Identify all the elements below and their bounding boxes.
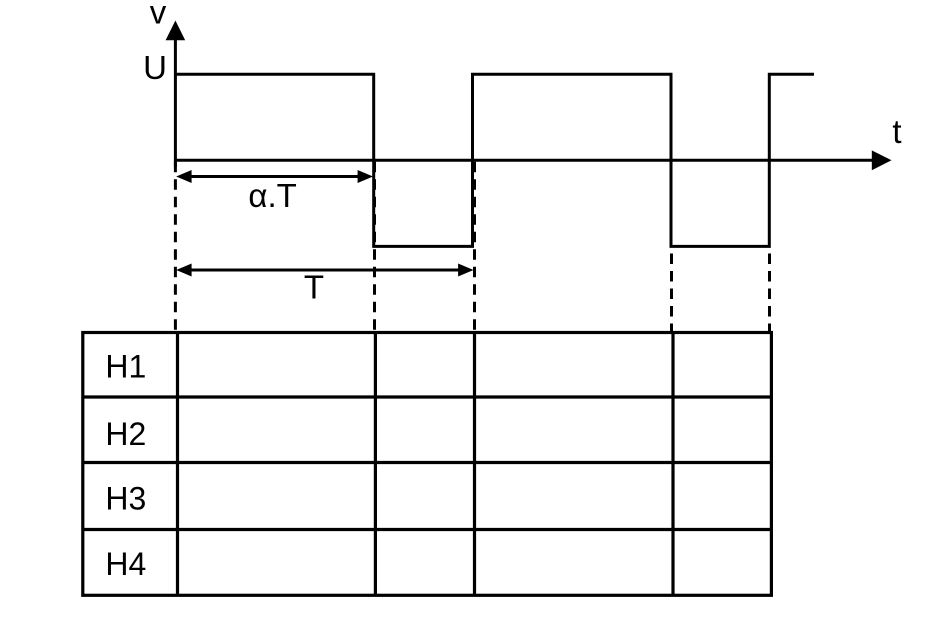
T dimension arrow: [188, 269, 461, 272]
table column divider 3: [473, 333, 476, 596]
table row divider 3: [83, 528, 772, 531]
svg-text:H1: H1: [105, 349, 146, 385]
table outer border: [83, 333, 772, 596]
table column divider 1: [176, 333, 179, 596]
dashed line at t=2T: [768, 254, 771, 333]
svg-text:t: t: [892, 113, 901, 150]
dashed line at t=0: [174, 162, 177, 333]
svg-text:T: T: [304, 269, 324, 306]
svg-text:H2: H2: [105, 416, 146, 452]
table row divider 2: [83, 461, 772, 464]
svg-text:α.T: α.T: [248, 177, 296, 214]
svg-text:H3: H3: [105, 481, 146, 517]
waveform (PWM square wave): [175, 74, 814, 246]
alpha.T dimension arrow: [188, 175, 361, 178]
svg-text:H4: H4: [105, 546, 146, 582]
dashed line at t=alpha.T: [373, 162, 376, 333]
t axis arrowhead: [872, 150, 892, 170]
v axis (vertical): [174, 36, 177, 167]
table row divider 1: [83, 395, 772, 398]
svg-text:v: v: [150, 0, 167, 31]
t axis (horizontal): [175, 159, 874, 162]
table column divider 2: [374, 333, 377, 596]
v axis arrowhead: [166, 21, 186, 41]
table column divider 4: [671, 333, 674, 596]
dashed line at second falling edge: [670, 254, 673, 333]
dashed line at t=T: [473, 162, 476, 333]
svg-text:U: U: [143, 49, 167, 86]
